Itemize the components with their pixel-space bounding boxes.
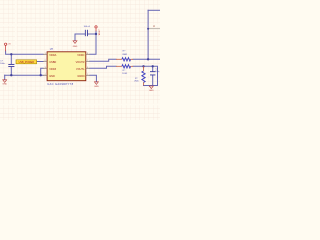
svg-text:VDDC: VDDC: [77, 53, 84, 57]
svg-text:VOUTR: VOUTR: [76, 60, 85, 64]
svg-text:7: 7: [87, 60, 88, 62]
svg-text:3: 3: [45, 67, 46, 69]
svg-text:VDD3: VDD3: [49, 67, 56, 71]
svg-text:+3V3A: +3V3A: [98, 29, 101, 36]
svg-text:100n: 100n: [0, 63, 4, 65]
svg-text:8: 8: [87, 53, 88, 55]
svg-text:2: 2: [45, 60, 46, 62]
svg-text:2K05: 2K05: [134, 80, 138, 82]
svg-text:100 nF: 100 nF: [84, 26, 91, 28]
svg-text:U?: U?: [50, 47, 54, 51]
svg-text:5: 5: [87, 74, 88, 76]
svg-text:USBD: USBD: [49, 60, 56, 64]
svg-text:GND: GND: [73, 46, 78, 48]
svg-text:VDDA: VDDA: [49, 53, 56, 57]
svg-text:GND: GND: [2, 83, 7, 85]
svg-text:1: 1: [45, 53, 46, 55]
svg-text:UAC GA09DPY78: UAC GA09DPY78: [47, 82, 73, 86]
svg-text:GND: GND: [49, 74, 55, 78]
svg-text:1K05: 1K05: [122, 73, 128, 75]
svg-text:330R: 330R: [122, 54, 127, 56]
svg-text:GND0: GND0: [77, 74, 85, 78]
svg-text:4: 4: [45, 74, 46, 76]
svg-text:GND: GND: [94, 86, 99, 88]
svg-text:6: 6: [87, 67, 88, 69]
svg-text:GND: GND: [149, 90, 154, 92]
svg-text:USB_POWER: USB_POWER: [19, 61, 35, 64]
svg-text:100n: 100n: [155, 71, 159, 73]
svg-text:VOUTL: VOUTL: [76, 67, 85, 71]
